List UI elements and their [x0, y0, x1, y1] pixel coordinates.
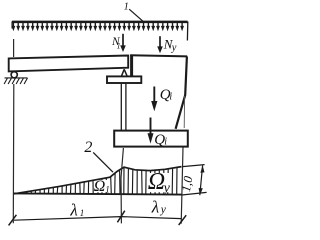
ordinate 1.0 dimension line: [200, 166, 203, 196]
svg-text:1: 1: [80, 208, 85, 218]
label 2 leader: [93, 152, 113, 172]
svg-text:1,0: 1,0: [179, 174, 196, 193]
column shaft lines: [121, 84, 126, 131]
force N1 arrow: [122, 34, 124, 46]
foundation bar: [114, 131, 188, 147]
svg-text:y: y: [160, 204, 167, 216]
roller support circle: [11, 72, 17, 78]
column head plate: [107, 76, 141, 83]
svg-text:2: 2: [84, 139, 92, 156]
extension line right: [181, 148, 183, 224]
force Qi arrow upper: [153, 87, 155, 103]
dimension tick left: [9, 215, 17, 226]
svg-text:y: y: [171, 43, 177, 54]
right beam segment left edge: [130, 55, 133, 76]
influence line baseline: [14, 193, 182, 194]
dimension line lambda1: [14, 217, 182, 221]
crane beam (left span): [9, 56, 129, 72]
extension line left support: [12, 39, 15, 223]
svg-text:1: 1: [124, 1, 129, 12]
ordinate 1.0 extension bottom: [182, 192, 207, 195]
svg-text:1: 1: [117, 41, 121, 50]
force Ny arrow: [159, 36, 161, 47]
extension line centre: [121, 148, 123, 223]
svg-text:1: 1: [105, 184, 110, 194]
influence line hatching: [22, 168, 177, 195]
hinge triangle bearing: [121, 69, 127, 76]
dimension tick centre: [117, 211, 124, 223]
svg-text:y: y: [162, 181, 171, 196]
right beam segment top line: [130, 55, 187, 56]
svg-text:i: i: [169, 91, 172, 102]
svg-text:Ω: Ω: [94, 178, 106, 195]
svg-text:Ω: Ω: [148, 169, 165, 195]
label 1 (crane beam) leader: [129, 9, 143, 22]
force Qi arrow lower: [150, 118, 152, 135]
column right edge: [176, 56, 187, 128]
influence line profile 2: [14, 167, 182, 194]
svg-text:λ: λ: [151, 197, 159, 216]
faint extension upper right: [183, 96, 185, 128]
svg-text:λ: λ: [69, 200, 77, 219]
svg-text:i: i: [164, 137, 167, 148]
distributed load q on beam 1: [13, 23, 182, 27]
ground hatching: [5, 77, 28, 79]
ordinate 1.0 extension top: [183, 165, 205, 167]
dimension tick right: [179, 215, 187, 225]
